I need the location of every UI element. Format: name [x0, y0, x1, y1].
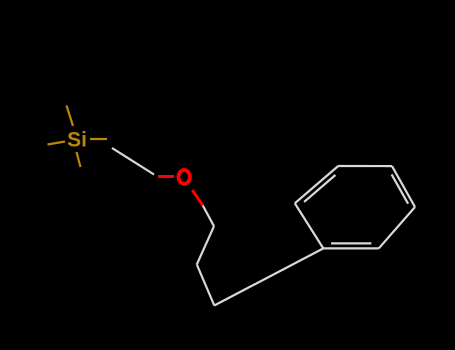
double bond inner C-D [392, 174, 409, 203]
bond Si-methyl up [67, 106, 74, 127]
bond CH2-CH2 [197, 226, 214, 264]
ring edge B-C [338, 165, 392, 167]
ring edge F-A [295, 203, 324, 248]
ring edge C-D [392, 166, 415, 207]
ring edge D-E [379, 207, 415, 248]
svg-text:Si: Si [67, 129, 87, 152]
bond Si-CH2 right [90, 138, 107, 140]
benzene ring [295, 166, 415, 248]
double bond inner A-B [304, 175, 335, 202]
bond Si-methyl down [77, 152, 81, 167]
double bond inner E-F [331, 242, 371, 244]
bond Si-methyl left [48, 142, 66, 145]
bond chain to phenyl (long) [214, 248, 323, 305]
bond O-CH2 carbon half [203, 206, 214, 227]
bond C-O left half [158, 175, 174, 178]
bond O-C right half [192, 190, 203, 206]
ring edge A-B [295, 166, 338, 203]
oxygen O [179, 170, 190, 184]
bond CH2-CH2 [197, 265, 215, 306]
wire C-C bond to CH2O [112, 148, 154, 175]
ring edge E-F [323, 247, 379, 249]
